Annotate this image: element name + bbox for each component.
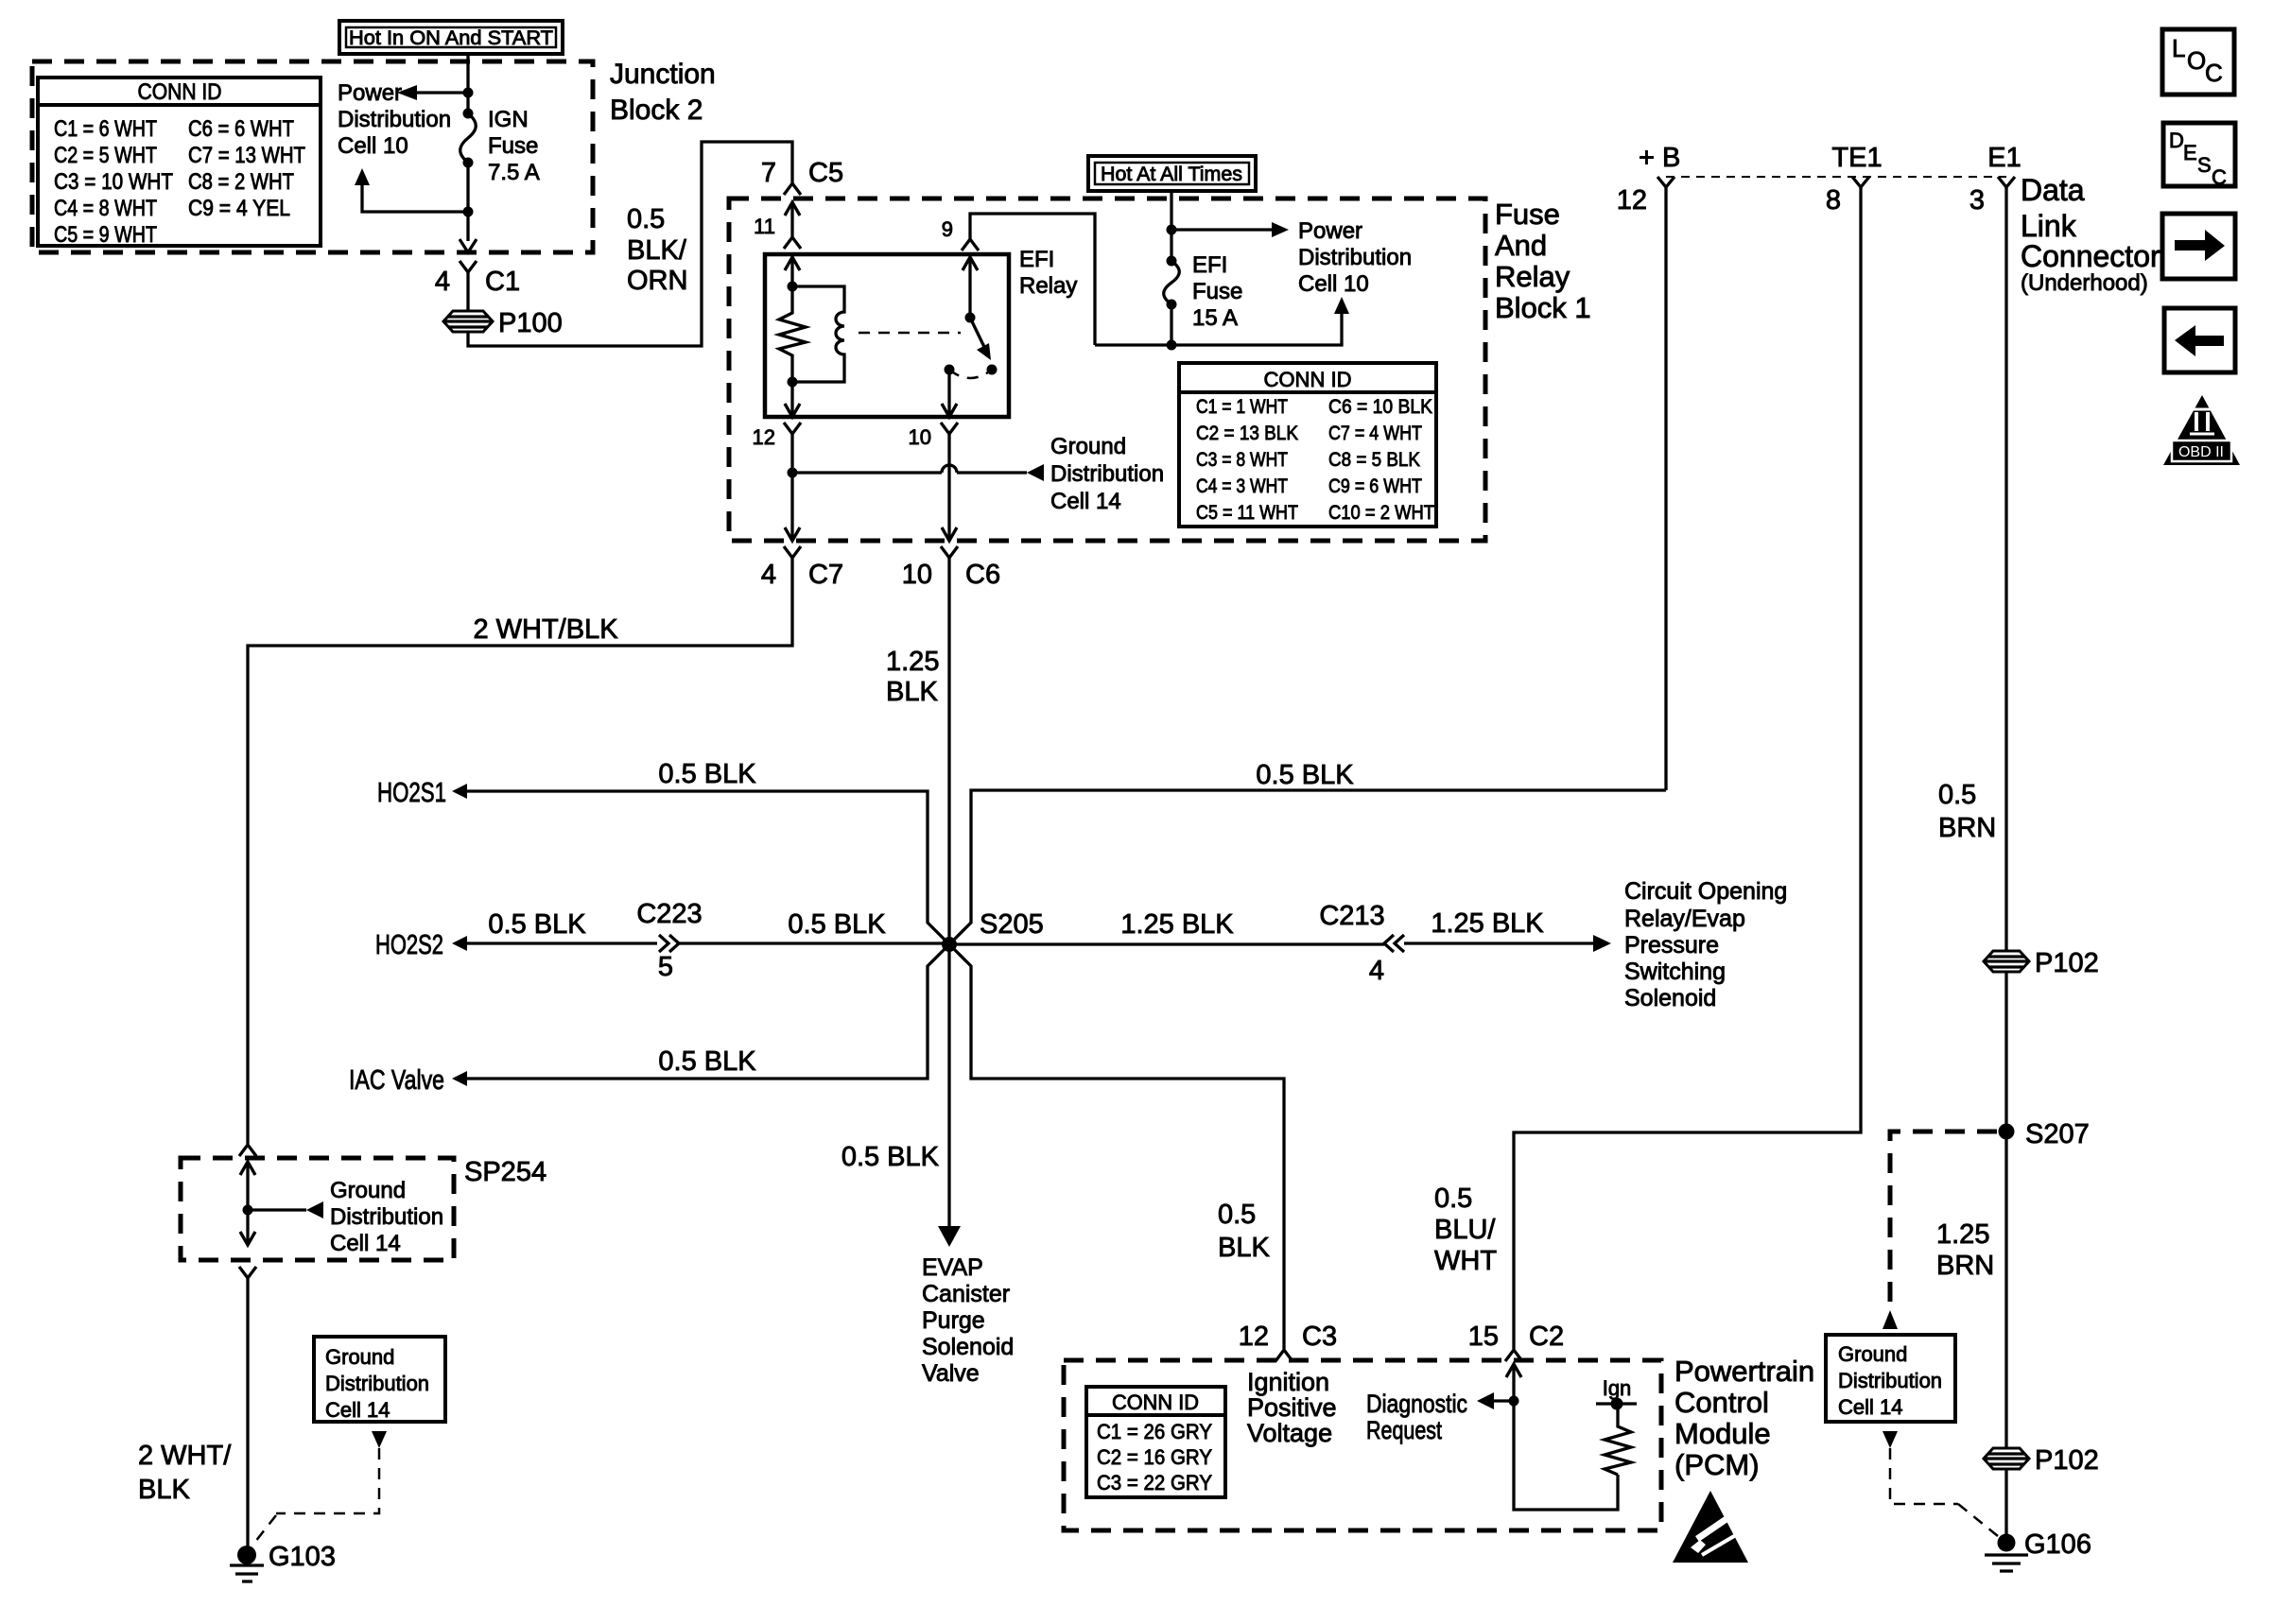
svg-text:P100: P100 (498, 308, 563, 338)
svg-text:ORN: ORN (627, 266, 687, 296)
relay EFI Relay box (765, 247, 1077, 417)
svg-text:C5: C5 (808, 158, 843, 188)
wire C1 to P100 (466, 272, 469, 312)
wire/arrow up to Cell 10 (355, 168, 468, 212)
icon LOC (2162, 29, 2234, 95)
svg-text:C7 = 13 WHT: C7 = 13 WHT (188, 143, 305, 168)
relay coil pin 11 arrow inside (785, 257, 800, 286)
svg-text:Cell 10: Cell 10 (1298, 271, 1369, 297)
svg-text:Link: Link (2021, 209, 2077, 243)
ESD static sensitive symbol (1673, 1491, 1748, 1563)
svg-text:0.5: 0.5 (1218, 1200, 1256, 1230)
relay actuation dashed link (859, 332, 961, 335)
arrow to Diagnostic Request (1366, 1390, 1514, 1444)
wire C2 loop to resistor (1514, 1401, 1618, 1510)
svg-text:WHT: WHT (1434, 1246, 1497, 1276)
svg-text:BLK: BLK (138, 1475, 190, 1505)
svg-text:1.25: 1.25 (886, 647, 939, 677)
svg-text:C6 = 6 WHT: C6 = 6 WHT (188, 116, 294, 142)
svg-text:C9 = 4 YEL: C9 = 4 YEL (188, 196, 290, 221)
node S205 (942, 909, 1044, 952)
svg-text:C10 = 2 WHT: C10 = 2 WHT (1328, 502, 1434, 524)
pin 12 connector cup (753, 423, 801, 449)
svg-text:BLU/: BLU/ (1434, 1215, 1496, 1245)
svg-text:Relay: Relay (1495, 260, 1570, 293)
svg-text:CONN ID: CONN ID (138, 79, 222, 105)
arrow to IAC Valve (349, 944, 949, 1096)
svg-text:+ B: + B (1639, 143, 1680, 173)
node SP254 tap (243, 1205, 253, 1216)
svg-text:L: L (2172, 34, 2185, 62)
svg-text:BLK: BLK (886, 677, 938, 707)
wire pin 12 down to C7 (785, 434, 800, 541)
svg-text:SP254: SP254 (464, 1157, 547, 1187)
svg-text:BRN: BRN (1936, 1251, 1994, 1281)
svg-text:TE1: TE1 (1831, 143, 1882, 173)
connector cup below SP254 (239, 1267, 256, 1278)
grommet P100 (443, 308, 563, 338)
relay switch contacts + dashed travel arc (945, 365, 998, 379)
svg-text:C3: C3 (1302, 1322, 1337, 1352)
svg-text:0.5: 0.5 (1434, 1183, 1472, 1214)
label 0.5 BLK/ORN (627, 204, 687, 296)
svg-text:0.5 BLK: 0.5 BLK (1256, 760, 1354, 790)
node relay coil top (788, 282, 798, 292)
node relay coil bottom (788, 377, 798, 388)
splice exit arrow (240, 1210, 255, 1245)
svg-text:C7: C7 (808, 560, 843, 590)
svg-text:C8 = 2 WHT: C8 = 2 WHT (188, 169, 294, 195)
svg-text:0.5 BLK: 0.5 BLK (658, 759, 756, 789)
svg-text:C1 = 6 WHT: C1 = 6 WHT (54, 116, 157, 142)
label 0.5 BLU/WHT (1434, 1183, 1497, 1276)
svg-text:Positive: Positive (1247, 1393, 1337, 1422)
svg-text:Valve: Valve (922, 1360, 980, 1387)
connector 15 C2 (1468, 1322, 1564, 1361)
svg-text:C: C (2205, 59, 2223, 87)
arrow to Power Distribution Cell 10 (right) (1171, 218, 1412, 297)
node S207 (1999, 1119, 2090, 1149)
arrow to Circuit Opening Relay (1.25 BLK) (1404, 878, 1787, 1011)
svg-text:10: 10 (902, 560, 932, 590)
svg-text:Cell 14: Cell 14 (1050, 489, 1121, 514)
svg-text:5: 5 (658, 952, 673, 982)
node: power distribution tap (463, 88, 474, 98)
svg-text:C1: C1 (485, 267, 520, 297)
splice entry arrow (240, 1162, 255, 1210)
svg-text:12: 12 (1617, 185, 1647, 216)
svg-text:Canister: Canister (922, 1281, 1010, 1307)
svg-text:C2 = 5 WHT: C2 = 5 WHT (54, 143, 157, 168)
svg-text:Ground: Ground (1050, 434, 1126, 459)
CONN ID table (Junction Block 2) (38, 78, 321, 248)
svg-text:Block 2: Block 2 (610, 95, 703, 126)
svg-text:Solenoid: Solenoid (1624, 985, 1716, 1011)
wire S205 to C3 (0.5 BLK) (949, 944, 1284, 1349)
svg-text:BLK: BLK (1218, 1233, 1270, 1263)
svg-text:C6 = 10 BLK: C6 = 10 BLK (1328, 396, 1432, 418)
svg-text:(PCM): (PCM) (1674, 1448, 1760, 1481)
svg-text:4: 4 (761, 560, 776, 590)
wire fuse to relay pin 9 (1095, 343, 1171, 346)
fuse and relay block 1 dashed outline (729, 199, 1485, 541)
svg-text:C: C (2212, 165, 2227, 189)
svg-text:Power: Power (1298, 218, 1362, 244)
grommet P102 (lower) (1984, 1445, 2099, 1476)
icon arrow right (2162, 214, 2235, 279)
svg-text:7: 7 (761, 158, 776, 188)
svg-text:Voltage: Voltage (1247, 1419, 1332, 1447)
svg-text:C1 = 26 GRY: C1 = 26 GRY (1097, 1420, 1212, 1443)
svg-text:C3 = 10 WHT: C3 = 10 WHT (54, 169, 173, 195)
wire +B down (0.5 BLK) (1664, 187, 1667, 790)
svg-text:Distribution: Distribution (325, 1372, 429, 1395)
svg-text:S207: S207 (2025, 1119, 2090, 1149)
icon OBD II triangle (2163, 395, 2240, 465)
label 0.5 BRN (1938, 780, 1996, 843)
svg-text:Distribution: Distribution (1050, 461, 1164, 487)
wire contact to pin 10 w/ arrow (942, 370, 957, 417)
svg-text:C1 = 1 WHT: C1 = 1 WHT (1196, 396, 1288, 418)
svg-text:EFI: EFI (1019, 247, 1054, 272)
wire IGN feed vertical (466, 54, 469, 241)
connector 4 C1 (435, 261, 520, 297)
svg-text:C3 = 8 WHT: C3 = 8 WHT (1196, 449, 1288, 471)
svg-text:Ground: Ground (1838, 1342, 1907, 1366)
wire pin 10 down to C6 (942, 434, 957, 541)
arrow to EVAP solenoid valve (0.5 BLK) (842, 944, 1015, 1387)
CONN ID table (Fuse And Relay Block 1) (1179, 363, 1436, 527)
svg-text:IAC Valve: IAC Valve (349, 1065, 444, 1096)
block title Fuse And Relay Block 1 (1495, 198, 1591, 324)
svg-text:OBD II: OBD II (2178, 444, 2224, 460)
label 1.25 BRN (1936, 1219, 1994, 1281)
svg-text:2 WHT/: 2 WHT/ (138, 1441, 232, 1471)
svg-text:G103: G103 (269, 1542, 336, 1572)
svg-text:1.25: 1.25 (1936, 1219, 1989, 1250)
dashed branch S207 to ground distribution (1883, 1132, 1997, 1329)
svg-text:HO2S2: HO2S2 (375, 930, 443, 960)
svg-text:Purge: Purge (922, 1307, 985, 1334)
svg-text:Fuse: Fuse (488, 133, 538, 159)
relay switch blade w/ arrowhead (970, 318, 991, 360)
wire coil to pin 12 w/ arrow (785, 382, 800, 417)
svg-text:Cell 10: Cell 10 (338, 133, 408, 159)
svg-text:C213: C213 (1319, 901, 1384, 931)
CONN ID table (PCM) (1086, 1387, 1225, 1497)
DLC top dashed link (1666, 176, 2006, 178)
svg-text:C4 = 3 WHT: C4 = 3 WHT (1196, 475, 1288, 497)
svg-text:Distribution: Distribution (338, 107, 451, 132)
svg-text:3: 3 (1969, 185, 1985, 216)
svg-text:0.5: 0.5 (627, 204, 665, 234)
splice SP254 dashed outline (181, 1157, 547, 1260)
svg-text:0.5 BLK: 0.5 BLK (788, 909, 886, 940)
svg-text:Control: Control (1674, 1386, 1769, 1419)
svg-text:CONN ID: CONN ID (1112, 1391, 1199, 1414)
svg-text:Solenoid: Solenoid (922, 1334, 1014, 1360)
svg-text:Relay: Relay (1019, 273, 1077, 299)
power feed banner "Hot In ON And START" (339, 21, 563, 54)
svg-text:C3 = 22 GRY: C3 = 22 GRY (1097, 1471, 1212, 1494)
pin 9 connector cup + wire from fuse (942, 214, 1095, 345)
svg-text:7.5 A: 7.5 A (488, 160, 540, 185)
svg-text:Powertrain: Powertrain (1674, 1355, 1814, 1388)
svg-text:Circuit Opening: Circuit Opening (1624, 878, 1787, 905)
svg-text:G106: G106 (2024, 1529, 2091, 1560)
svg-text:Module: Module (1674, 1417, 1771, 1450)
wire S205 to +B (0.5 BLK) (949, 760, 1666, 944)
wire P100 to C5 (0.5 BLK/ORN) (468, 142, 792, 346)
svg-text:C7 = 4 WHT: C7 = 4 WHT (1328, 423, 1422, 444)
label Ignition Positive Voltage (1247, 1368, 1337, 1447)
svg-text:S205: S205 (980, 909, 1044, 940)
wire/arrow to Power Distribution Cell 10 (338, 80, 468, 159)
svg-text:Fuse: Fuse (1495, 198, 1560, 231)
node ground distribution tap (788, 468, 798, 478)
arrow to Ground Distribution Cell 14 (SP254) (248, 1178, 443, 1256)
fuse IGN Fuse 7.5 A (460, 107, 540, 185)
svg-text:0.5 BLK: 0.5 BLK (488, 909, 586, 940)
svg-text:C5 = 11 WHT: C5 = 11 WHT (1196, 502, 1298, 524)
svg-text:Switching: Switching (1624, 959, 1726, 985)
svg-text:Hot In ON And START: Hot In ON And START (349, 27, 553, 49)
svg-text:C4 = 8 WHT: C4 = 8 WHT (54, 196, 157, 221)
wire/arrow up to Cell 10 (right) (1171, 297, 1349, 345)
svg-text:Ground: Ground (325, 1345, 394, 1369)
svg-text:Distribution: Distribution (1298, 245, 1412, 270)
ground G103 (230, 1542, 336, 1581)
pin 11 entry arrow (754, 202, 800, 238)
connector 12 C3 (1239, 1322, 1337, 1361)
svg-text:Distribution: Distribution (330, 1204, 443, 1230)
svg-text:4: 4 (1369, 956, 1384, 986)
connector E1 pin 3 (1969, 143, 2021, 216)
svg-text:C223: C223 (636, 899, 702, 929)
svg-text:9: 9 (942, 217, 953, 241)
svg-text:And: And (1495, 229, 1547, 262)
node EFI fuse bottom junction (1167, 340, 1177, 351)
svg-text:IGN: IGN (488, 107, 529, 132)
wire C223 to S205 (0.5 BLK) (679, 909, 949, 943)
ground distribution callout box (right) (1826, 1335, 1955, 1422)
connector cup above SP254 (239, 1145, 256, 1156)
icon DESC (2163, 123, 2235, 189)
svg-text:CONN ID: CONN ID (1264, 368, 1352, 391)
svg-text:0.5: 0.5 (1938, 780, 1976, 810)
svg-text:C5 = 9 WHT: C5 = 9 WHT (54, 222, 157, 248)
svg-text:P102: P102 (2035, 1445, 2099, 1476)
svg-text:O: O (2187, 46, 2206, 75)
wire SP254 to G103 (2 WHT/BLK) (138, 1278, 248, 1547)
svg-text:E1: E1 (1987, 143, 2021, 173)
svg-text:D: D (2169, 129, 2184, 152)
relay switch pivot node (965, 313, 976, 323)
svg-text:EFI: EFI (1192, 252, 1227, 278)
connector 7 C5 (761, 158, 843, 195)
svg-text:Pressure: Pressure (1624, 932, 1719, 959)
svg-text:C9 = 6 WHT: C9 = 6 WHT (1328, 475, 1422, 497)
wire C6 down to S205 (1.25 BLK) (886, 558, 949, 944)
junction block J2 title (610, 59, 716, 126)
connector exit arrow (J2 bottom) (460, 239, 477, 252)
resistor (PCM pull-up) (1605, 1404, 1631, 1475)
label Powertrain Control Module (PCM) (1674, 1355, 1814, 1481)
svg-text:S: S (2197, 153, 2212, 177)
connector 10 C6 (902, 546, 1000, 590)
svg-text:8: 8 (1826, 185, 1841, 216)
node EFI fuse top tap (1167, 225, 1177, 235)
svg-text:Ignition: Ignition (1247, 1368, 1329, 1396)
svg-text:11: 11 (754, 215, 775, 238)
svg-text:Connector: Connector (2021, 239, 2160, 273)
pin 11 connector cup (784, 237, 801, 249)
relay switch pin 9 arrow inside (963, 257, 978, 318)
svg-text:0.5 BLK: 0.5 BLK (658, 1046, 756, 1077)
svg-text:4: 4 (435, 267, 450, 297)
ground distribution callout box (left) (314, 1337, 445, 1422)
svg-text:Cell 14: Cell 14 (330, 1231, 401, 1256)
svg-text:0.5 BLK: 0.5 BLK (842, 1142, 940, 1172)
svg-text:1.25 BLK: 1.25 BLK (1431, 908, 1544, 939)
svg-text:Diagnostic: Diagnostic (1366, 1390, 1467, 1418)
svg-text:12: 12 (753, 425, 775, 449)
svg-text:C6: C6 (965, 560, 1000, 590)
svg-text:(Underhood): (Underhood) (2021, 270, 2148, 296)
svg-text:C2: C2 (1529, 1322, 1564, 1352)
connector 4 C7 (761, 546, 843, 590)
svg-text:2 WHT/BLK: 2 WHT/BLK (473, 614, 618, 645)
wire C7 to SP254 (2 WHT/BLK) (248, 558, 792, 1144)
svg-text:Hot At All Times: Hot At All Times (1101, 164, 1242, 185)
svg-text:BRN: BRN (1938, 813, 1996, 843)
icon arrow left (2164, 308, 2235, 372)
svg-text:15: 15 (1468, 1322, 1499, 1352)
svg-text:E: E (2183, 141, 2197, 164)
arrow to HO2S2 (375, 909, 657, 960)
grommet P102 (upper) (1984, 948, 2099, 978)
svg-text:Relay/Evap: Relay/Evap (1624, 906, 1745, 932)
wire E1 down to G106 (0.5 BRN / 1.25 BRN) (2004, 187, 2007, 1543)
svg-text:Request: Request (1366, 1416, 1442, 1444)
wire to Ground Distribution Cell 14 (hop + arrow) (792, 434, 1164, 514)
svg-text:15 A: 15 A (1192, 305, 1238, 331)
pin 10 connector cup (909, 423, 958, 449)
node: cell10 return tap (463, 207, 474, 217)
connector TE1 pin 8 (1826, 143, 1883, 216)
svg-text:Cell 14: Cell 14 (325, 1398, 390, 1422)
node Ign (1596, 1376, 1637, 1410)
svg-text:Block 1: Block 1 (1495, 291, 1591, 324)
connector C213 pin 4 (1319, 901, 1404, 986)
connector C223 pin 5 (636, 899, 702, 982)
junction block J2 dashed outline (32, 61, 593, 252)
svg-text:Fuse: Fuse (1192, 279, 1242, 304)
svg-text:P102: P102 (2035, 948, 2099, 978)
wire TE1 down to C2 (1514, 187, 1861, 1349)
svg-text:Power: Power (338, 80, 402, 106)
svg-text:BLK/: BLK/ (627, 235, 687, 266)
arrow to HO2S1 (377, 759, 949, 944)
svg-text:C2 = 13 BLK: C2 = 13 BLK (1196, 423, 1298, 444)
label Data Link Connector (Underhood) (2021, 173, 2160, 296)
svg-text:Distribution: Distribution (1838, 1369, 1942, 1392)
fuse EFI Fuse 15 A (1164, 230, 1243, 345)
svg-text:10: 10 (909, 425, 931, 449)
svg-text:C8 = 5 BLK: C8 = 5 BLK (1328, 449, 1420, 471)
svg-text:C2 = 16 GRY: C2 = 16 GRY (1097, 1445, 1212, 1469)
feed wire from Hot At All Times (1088, 156, 1256, 230)
PCM dashed outline (1064, 1360, 1661, 1530)
dashed ground path to G106 (1883, 1431, 1998, 1536)
node diagnostic request tap (1509, 1396, 1519, 1407)
svg-text:Data: Data (2021, 173, 2085, 207)
svg-text:1.25 BLK: 1.25 BLK (1120, 909, 1234, 940)
svg-text:Ground: Ground (330, 1178, 406, 1203)
svg-text:Junction: Junction (610, 59, 716, 90)
ground G106 (1985, 1529, 2091, 1571)
svg-text:Ign: Ign (1603, 1376, 1632, 1400)
resistor (relay) (779, 286, 806, 382)
coil winding (relay) (792, 286, 844, 382)
svg-text:EVAP: EVAP (922, 1254, 983, 1281)
connector +B pin 12 (1617, 143, 1681, 216)
PCM pin C2 entry arrow (1506, 1364, 1521, 1401)
svg-text:12: 12 (1239, 1322, 1269, 1352)
dashed ground path to G103 (252, 1431, 387, 1546)
wire S205 to C213 (1.25 BLK) (949, 909, 1384, 944)
svg-text:Cell 14: Cell 14 (1838, 1395, 1902, 1419)
svg-text:HO2S1: HO2S1 (377, 778, 446, 808)
